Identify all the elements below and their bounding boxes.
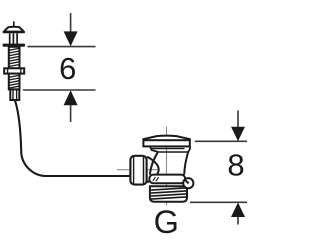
svg-text:6: 6 [59,51,76,86]
svg-text:8: 8 [227,148,244,183]
svg-text:G: G [154,204,179,240]
